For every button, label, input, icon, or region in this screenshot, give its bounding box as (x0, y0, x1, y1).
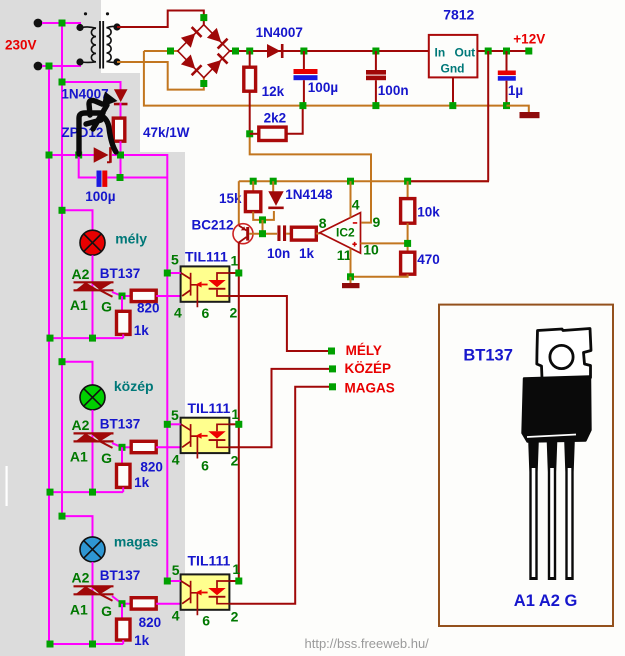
svg-text:5: 5 (171, 407, 179, 423)
svg-text:BT137: BT137 (463, 347, 513, 365)
wire D6 to R3 (120, 103, 122, 118)
svg-text:közép: közép (114, 378, 154, 394)
svg-text:6: 6 (202, 612, 210, 628)
hand-drawn annotation scribble (79, 100, 116, 154)
BT137 package tab (537, 329, 591, 379)
wire to D6 top (62, 82, 121, 90)
svg-text:TIL111: TIL111 (188, 400, 231, 416)
junction (273.2,181.2) (270, 178, 277, 185)
svg-text:230V: 230V (5, 38, 37, 53)
capacitor C4 100u (97, 171, 102, 187)
wire ground rail (144, 51, 507, 106)
junction (262.5,219.9) (259, 216, 266, 223)
wire to base node (262, 220, 264, 234)
wire 10k bottom (407, 223, 409, 252)
wire 820 1 to opto pin4 (156, 295, 180, 297)
svg-text:9: 9 (373, 214, 381, 230)
wire C1 bottom (303, 80, 305, 105)
svg-text:MAGAS: MAGAS (345, 381, 395, 396)
svg-text:2: 2 (231, 609, 239, 625)
wire 2k2 right to ground rail (286, 106, 303, 134)
wire base to C5 (249, 233, 277, 235)
svg-text:G: G (101, 450, 112, 466)
junction (303.9,51) (300, 48, 307, 55)
U3 LED (217, 581, 229, 604)
wire zener right (112, 155, 167, 178)
junction (167.3,581) (164, 578, 171, 585)
svg-text:A1 A2 G: A1 A2 G (514, 592, 578, 610)
wire lamp 1 to triac Q2 (92, 255, 94, 338)
wire C3 bottom (506, 81, 508, 106)
svg-text:magas: magas (114, 534, 159, 550)
wire mains L to transformer (42, 23, 80, 27)
svg-text:1: 1 (232, 561, 240, 577)
gray background region (0, 0, 185, 656)
wire pin5 stub 1 (167, 272, 180, 274)
wire 12k top (249, 51, 251, 67)
junction (50,644) (47, 641, 54, 648)
svg-text:A2: A2 (72, 417, 90, 433)
bridge diode bottom-left (181, 55, 203, 77)
wire 15k bottom to D8 (253, 211, 274, 220)
wire +12V opamp rail (239, 180, 489, 182)
svg-text:4: 4 (352, 197, 360, 213)
wire C2 top (375, 51, 377, 70)
junction (78.7,155) (75, 152, 82, 159)
regulator U3 7812 (429, 35, 478, 78)
wire gate 2 to 1k (122, 447, 123, 464)
svg-text:1: 1 (231, 253, 239, 269)
wire triac 2 gate (112, 443, 122, 447)
svg-text:A1: A1 (70, 297, 88, 313)
wire gate 1 to 820 (122, 295, 131, 297)
svg-text:12k: 12k (262, 84, 285, 99)
junction (62,210.3) (59, 207, 66, 214)
transformer TR1 (82, 21, 117, 69)
terminal +12V (525, 48, 532, 55)
junction (350.5,181.2) (347, 178, 354, 185)
svg-text:1k: 1k (134, 475, 150, 490)
wire channel 3 bottom rail (49, 643, 123, 645)
svg-text:5: 5 (171, 252, 179, 268)
svg-text:A2: A2 (72, 266, 90, 282)
svg-text:4: 4 (174, 305, 182, 321)
svg-text:http://bss.freeweb.hu/: http://bss.freeweb.hu/ (305, 636, 430, 651)
wire 12k bottom (249, 91, 251, 134)
wire DC+ rail (230, 50, 429, 52)
svg-text:BT137: BT137 (100, 568, 141, 583)
svg-text:A2: A2 (72, 569, 90, 585)
bridge diode top-right (207, 28, 229, 50)
svg-text:1µ: 1µ (508, 83, 523, 98)
junction (50,338.1) (47, 335, 54, 342)
wire pin1 stub 3 (229, 580, 238, 582)
wire C5 to R5 (286, 233, 291, 235)
svg-text:Out: Out (455, 46, 476, 60)
svg-text:A1: A1 (70, 601, 88, 617)
junction (49,66) (46, 63, 53, 70)
svg-text:1k: 1k (134, 633, 150, 648)
wire pin1 stub 1 (229, 272, 238, 274)
triac Q2 BT137 (74, 282, 114, 297)
svg-text:BT137: BT137 (100, 266, 141, 281)
junction (122,447.3) (119, 444, 126, 451)
wire BC212 collector to opto pin1 (238, 243, 240, 272)
optocoupler TIL111 U2 (181, 418, 230, 453)
resistor R4 15k (245, 192, 260, 212)
bridge rectifier D1-D4 (178, 25, 230, 78)
svg-text:4: 4 (172, 451, 180, 467)
lamp 3 magas (80, 537, 105, 562)
U1 light arrow (202, 284, 208, 286)
U3 light arrow (202, 592, 208, 594)
wire 470 bottom to pin11 (351, 274, 408, 277)
svg-text:MÉLY: MÉLY (346, 343, 382, 358)
lamp 2 kozep (80, 385, 105, 410)
junction (302.9,105.6) (299, 102, 306, 109)
triac Q4 BT137 (74, 586, 114, 601)
junction (122,296) (119, 293, 126, 300)
junction (238.8,424.3) (235, 421, 242, 428)
svg-text:+12V: +12V (513, 32, 545, 47)
resistor 1k channel 3 (117, 619, 131, 640)
junction (375.9,51) (372, 48, 379, 55)
wire IC2 pin11 (350, 249, 352, 277)
wire zener left (49, 154, 94, 156)
wire BC212 emitter (238, 181, 240, 224)
svg-text:1k: 1k (134, 323, 150, 338)
wire C3 top (506, 51, 508, 71)
wire mains rail x49 (48, 66, 50, 643)
wire gate 2 to 820 (122, 446, 131, 448)
junction (167.3,273) (164, 270, 171, 277)
junction (452.8,105.6) (449, 102, 456, 109)
wire lamp 2 feed (62, 362, 93, 385)
wire pin5 stub 3 (167, 580, 180, 582)
svg-text:1k: 1k (299, 246, 315, 261)
wire IC2 pin4 (350, 181, 352, 217)
wire mains N to transformer (42, 62, 80, 66)
svg-text:100µ: 100µ (85, 189, 115, 204)
terminal KOZEP (329, 365, 336, 372)
diode D8 1N4148 (268, 191, 283, 209)
230V terminal bottom (34, 62, 43, 71)
junction (50,492.1) (47, 489, 54, 496)
svg-text:TIL111: TIL111 (188, 553, 231, 569)
terminal MAGAS (329, 383, 336, 390)
junction (407.6,243.4) (404, 240, 411, 247)
junction (203.8,83.5) (200, 80, 207, 87)
wire 2k2 left (250, 133, 259, 135)
svg-text:1N4148: 1N4148 (285, 187, 333, 202)
wire lamp 3 to triac Q4 (92, 562, 94, 644)
junction (262.5,233.7) (259, 230, 266, 237)
junction (407.6,181.2) (404, 178, 411, 185)
wire 820 3 to opto pin4 (156, 603, 180, 605)
wire KOZEP output (229, 369, 329, 447)
diode D6 1N4007 (114, 89, 128, 105)
svg-text:2: 2 (231, 452, 239, 468)
svg-text:6: 6 (202, 305, 210, 321)
resistor R3 47k/1W (113, 118, 125, 141)
svg-text:10k: 10k (417, 205, 440, 220)
wire opto pin5 rail (166, 178, 168, 582)
wire 1k 1 to rail (122, 334, 124, 338)
wire to ground symbol (507, 106, 529, 112)
wire 1k 2 to rail (122, 487, 124, 492)
wire 1k 3 to rail (122, 640, 124, 644)
svg-text:6: 6 (201, 458, 209, 474)
svg-text:7812: 7812 (443, 7, 474, 23)
junction (249.7,51) (246, 48, 253, 55)
BT137 package info box (439, 305, 613, 626)
resistor 820 channel 2 (131, 441, 156, 452)
junction (92.5,644) (89, 641, 96, 648)
wire 15k top (252, 181, 254, 192)
junction (203.8,17.6) (200, 14, 207, 21)
wire gate 3 to 1k (122, 604, 123, 619)
junction (120,177.5) (117, 174, 124, 181)
junction (49,155) (46, 152, 53, 159)
junction (253.2,181.2) (250, 178, 257, 185)
wire R5 to IC2 pin8 (316, 232, 320, 235)
junction (62,82) (59, 79, 66, 86)
wire channel 1 bottom rail (49, 337, 123, 339)
resistor R6 10k (401, 199, 415, 224)
bridge diode bottom-right (207, 53, 229, 75)
wire pin5 stub 2 (167, 423, 180, 425)
wire opto pin1 chain (238, 272, 240, 581)
svg-text:2k2: 2k2 (264, 111, 287, 126)
wire lamp 2 to triac Q3 (92, 410, 94, 492)
capacitor C2 100n (366, 70, 386, 75)
op-amp IC2 (320, 213, 361, 254)
junction (488.2,51) (485, 48, 492, 55)
junction (92.5,338.1) (89, 335, 96, 342)
svg-text:G: G (101, 603, 112, 619)
resistor 1k channel 1 (117, 311, 131, 334)
svg-text:1: 1 (231, 406, 239, 422)
wire channel 2 bottom rail (49, 491, 123, 493)
wire MAGAS output (229, 387, 329, 604)
junction (62,516.1) (59, 513, 66, 520)
triac Q3 BT137 (74, 433, 114, 448)
wire C4 right (108, 177, 168, 179)
wire pin1 stub 2 (229, 423, 238, 425)
junction (506.5,51) (503, 48, 510, 55)
svg-text:G: G (101, 299, 112, 315)
zener D7 ZPD12 (94, 147, 112, 163)
resistor 1k channel 2 (117, 464, 131, 487)
svg-text:2: 2 (230, 305, 238, 321)
junction (350.5,276.8) (347, 273, 354, 280)
svg-text:In: In (435, 46, 446, 60)
svg-text:1N4007: 1N4007 (61, 87, 108, 102)
svg-text:1N4007: 1N4007 (256, 25, 303, 40)
ground symbol (520, 112, 540, 118)
svg-text:470: 470 (417, 252, 440, 267)
BT137 package legs (528, 441, 575, 580)
svg-text:4: 4 (172, 608, 180, 624)
wire D8 top (272, 181, 274, 192)
svg-text:820: 820 (140, 460, 163, 475)
wire transformer to bridge bottom (117, 62, 204, 90)
junction (238.8,581) (235, 578, 242, 585)
diode D5 1N4007 (267, 44, 284, 58)
wire 7812 Gnd (452, 77, 454, 105)
resistor R1 12k (244, 67, 256, 91)
junction (62,361.7) (59, 358, 66, 365)
wire bridge left node (144, 50, 178, 52)
junction (506.5,105.6) (503, 102, 510, 109)
junction (235.5,51) (232, 48, 239, 55)
wire divider to IC2 pin9 (250, 134, 371, 223)
wire transformer to bridge top (117, 11, 204, 28)
wire C4 left (79, 155, 96, 178)
wire MELY output (229, 296, 328, 351)
wire 7812 out +12V (477, 50, 528, 52)
wire to ground symbol 2 (350, 277, 352, 283)
junction (92.5,492.1) (89, 489, 96, 496)
svg-text:820: 820 (137, 301, 160, 316)
wire R3 bottom (120, 141, 122, 177)
capacitor C5 10n (277, 225, 280, 241)
wire lamp 3 feed (62, 516, 93, 537)
svg-text:47k/1W: 47k/1W (143, 125, 190, 140)
junction (249.7,133.8) (246, 130, 253, 137)
capacitor C3 1u (498, 71, 516, 76)
svg-text:820: 820 (139, 615, 162, 630)
U2 LED (217, 424, 229, 447)
svg-text:BC212: BC212 (192, 218, 234, 233)
svg-text:Gnd: Gnd (441, 62, 465, 76)
wire +12V down to opamp rail (487, 51, 489, 181)
junction (375.9,105.6) (372, 102, 379, 109)
svg-text:TIL111: TIL111 (185, 249, 228, 265)
U2 light arrow (202, 435, 208, 437)
wire IC2 pin10 (361, 242, 408, 244)
svg-text:100n: 100n (378, 83, 409, 98)
ground symbol 2 (342, 283, 360, 288)
U2 phototransistor (181, 424, 197, 458)
svg-text:8: 8 (319, 215, 327, 231)
junction (122,603.7) (119, 600, 126, 607)
wire 820 2 to opto pin4 (156, 446, 180, 448)
capacitor C1 100u (294, 69, 318, 74)
junction (170.5,51) (167, 48, 174, 55)
junction (120.5,155) (117, 152, 124, 159)
U1 phototransistor (181, 273, 197, 307)
wire triac 1 gate (112, 292, 122, 296)
zener hooks (107, 148, 114, 162)
svg-text:KÖZÉP: KÖZÉP (345, 361, 392, 376)
resistor R7 470 (401, 252, 415, 274)
wire triac 3 gate (112, 596, 122, 604)
svg-text:BT137: BT137 (100, 417, 141, 432)
optocoupler TIL111 U1 (181, 266, 230, 301)
terminal MELY (328, 348, 335, 355)
U3 phototransistor (181, 581, 197, 615)
resistor R5 1k (291, 227, 316, 240)
resistor 820 channel 3 (131, 598, 156, 609)
resistor 820 channel 1 (131, 290, 156, 301)
lamp 1 mely (80, 230, 105, 255)
wire 10k top (407, 181, 409, 198)
wire mains rail x62 (61, 23, 63, 516)
junction (62,23) (59, 20, 66, 27)
wire gate 1 to 1k (122, 296, 123, 311)
wire C2 bottom (375, 80, 377, 105)
svg-text:10n: 10n (267, 246, 290, 261)
svg-text:IC2: IC2 (336, 226, 355, 240)
junction (238.8,273) (235, 270, 242, 277)
optocoupler TIL111 U3 (181, 574, 230, 609)
svg-text:100µ: 100µ (308, 80, 338, 95)
resistor R2 2k2 (259, 127, 286, 140)
junction (167.3,424.3) (164, 421, 171, 428)
wire gate 3 to 820 (122, 603, 131, 605)
230V terminal top (34, 19, 43, 28)
wire lamp 1 feed (62, 210, 93, 230)
bridge diode top-left (181, 26, 203, 48)
svg-text:mély: mély (115, 231, 147, 247)
svg-text:5: 5 (172, 562, 180, 578)
svg-text:A1: A1 (70, 449, 88, 465)
wire C1 top (303, 51, 305, 69)
BT137 package body (523, 377, 591, 442)
U1 LED (217, 273, 229, 296)
